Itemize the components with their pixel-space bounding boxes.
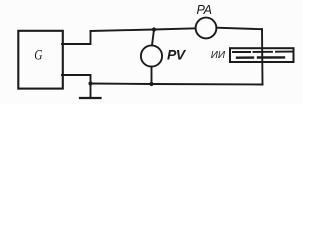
svg-text:PV: PV [167,47,187,63]
wire from G bottom output [62,75,91,84]
ammeter PA [196,18,217,39]
wire PV to bottom rail [151,67,153,84]
voltmeter PV [141,45,162,66]
junction dot ground node [88,81,92,85]
electrode bar lower [237,56,284,59]
svg-text:PA: PA [197,3,212,17]
svg-text:G: G [34,46,43,63]
junction dot PV bottom node [149,82,153,86]
ground [90,84,92,98]
test object II box [230,48,294,62]
bottom rail [91,84,263,85]
generator G box [18,31,63,89]
wire PA to right corner [217,28,263,30]
wire from G top output [62,31,91,44]
wire top rail to PA [91,28,196,31]
svg-text:ИИ: ИИ [211,50,226,61]
wire vertical down through test object [261,29,264,84]
junction dot top node [152,27,156,31]
wire junction to PV [152,30,154,46]
electrode bar upper [233,51,292,53]
